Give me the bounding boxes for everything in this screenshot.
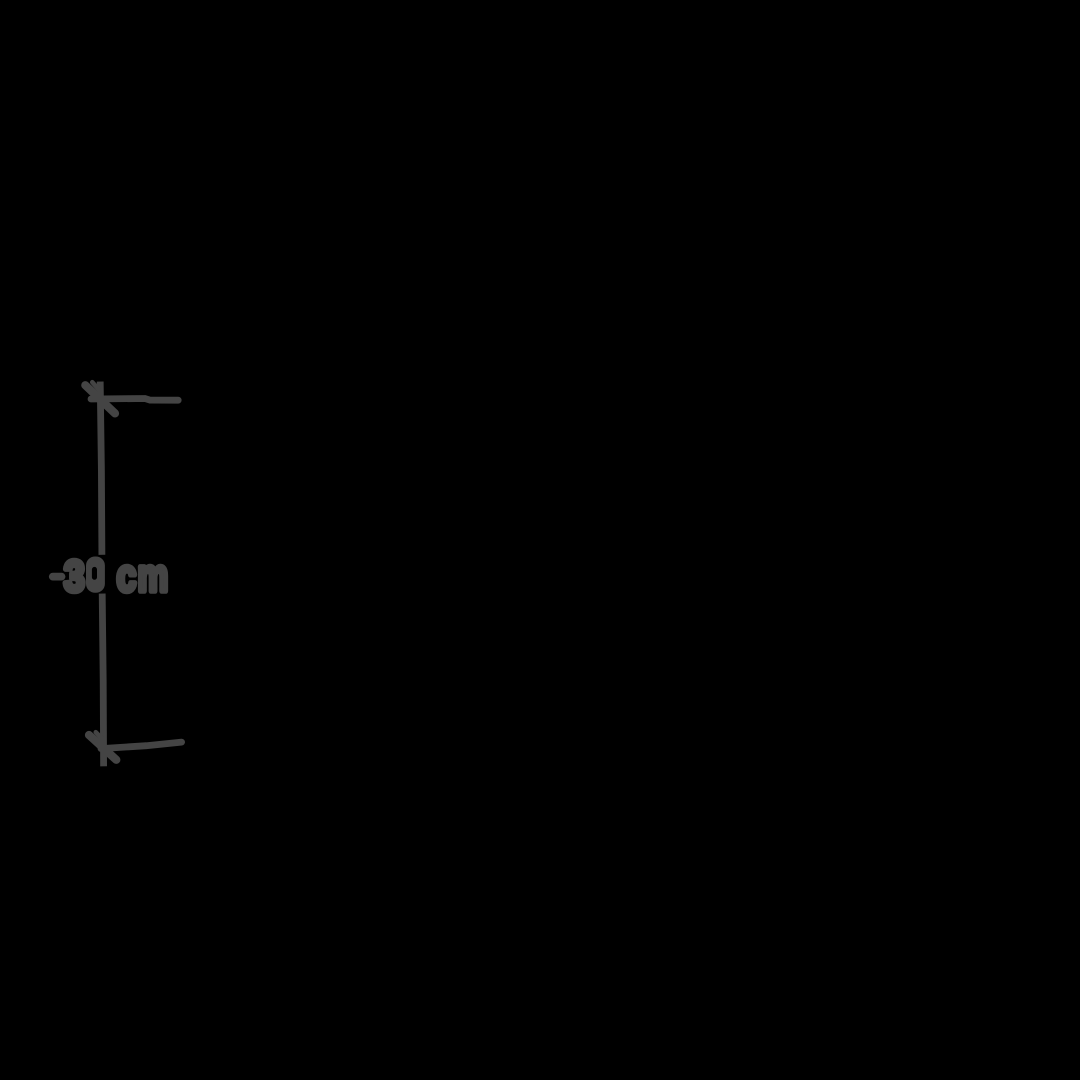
- svg-text:c: c: [117, 550, 137, 602]
- svg-text:m: m: [138, 549, 169, 601]
- svg-text:3: 3: [64, 551, 85, 600]
